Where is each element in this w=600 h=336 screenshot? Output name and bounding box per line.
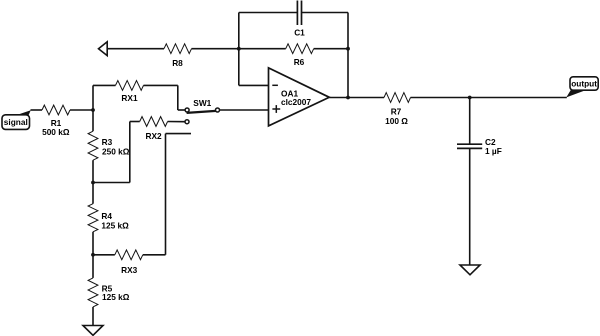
- svg-text:R4: R4: [101, 211, 112, 221]
- svg-text:output: output: [571, 78, 597, 88]
- svg-text:signal: signal: [4, 117, 28, 127]
- svg-text:RX3: RX3: [121, 265, 138, 275]
- svg-text:RX2: RX2: [146, 131, 163, 141]
- svg-text:250 kΩ: 250 kΩ: [102, 147, 130, 157]
- svg-text:SW1: SW1: [193, 98, 211, 108]
- svg-text:125 kΩ: 125 kΩ: [102, 292, 130, 302]
- svg-text:clc2007: clc2007: [281, 97, 311, 107]
- svg-text:R3: R3: [102, 137, 113, 147]
- svg-text:RX1: RX1: [121, 93, 138, 103]
- svg-text:C1: C1: [294, 28, 305, 38]
- svg-text:125 kΩ: 125 kΩ: [101, 221, 129, 231]
- svg-text:1 µF: 1 µF: [485, 146, 502, 156]
- svg-text:100 Ω: 100 Ω: [385, 116, 408, 126]
- svg-text:500 kΩ: 500 kΩ: [42, 127, 70, 137]
- svg-text:R6: R6: [294, 57, 305, 67]
- svg-text:R8: R8: [172, 58, 183, 68]
